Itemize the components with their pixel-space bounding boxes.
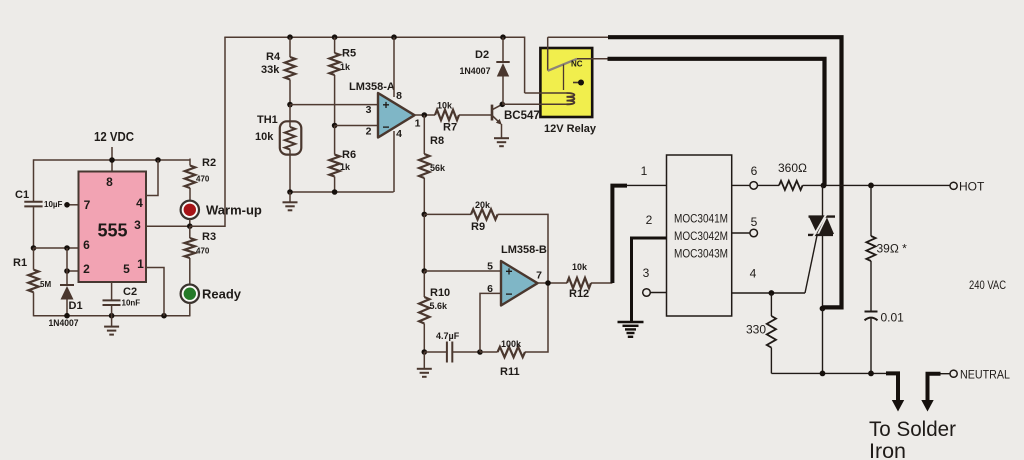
svg-text:1: 1	[137, 257, 144, 271]
resistor R2	[185, 166, 195, 189]
svg-text:R8: R8	[430, 135, 444, 147]
LED ready	[181, 285, 199, 303]
wire triac to neutral rail	[822, 309, 824, 374]
relay switch arm	[548, 59, 577, 71]
wire pin 2	[67, 270, 79, 272]
relay NO contact	[573, 80, 584, 86]
svg-text:56k: 56k	[430, 163, 446, 173]
node R5 top	[332, 34, 338, 40]
wire relay common to top	[548, 36, 609, 38]
wire to C3	[424, 351, 446, 353]
wire R3 bottom	[189, 258, 191, 285]
wire LED to node	[189, 219, 191, 226]
resistor R12	[567, 278, 591, 288]
thick arrow to solder iron left	[886, 373, 904, 411]
wire triac gate	[805, 236, 817, 294]
svg-text:4: 4	[136, 196, 143, 210]
wire pin 7 stub	[67, 204, 79, 206]
svg-text:3: 3	[366, 104, 372, 116]
svg-text:10nF: 10nF	[122, 299, 141, 308]
wire R7 to base	[459, 114, 492, 116]
MOC pin5 terminal	[750, 229, 758, 237]
svg-text:R5: R5	[342, 48, 356, 60]
svg-text:10k: 10k	[437, 101, 453, 111]
node R1 top junction	[31, 245, 37, 251]
svg-text:R10: R10	[430, 287, 450, 299]
svg-text:1k: 1k	[340, 62, 351, 72]
thick ground below MOC pin2	[618, 322, 644, 337]
wire R2 top from rail	[189, 159, 191, 166]
resistor R5	[329, 53, 339, 75]
svg-text:−: −	[382, 120, 389, 134]
wire collector to relay coil	[502, 103, 566, 105]
node triac top junction	[821, 183, 827, 189]
ground below R10	[417, 369, 432, 377]
node pin6 feedback junction	[477, 349, 483, 355]
svg-text:D1: D1	[69, 300, 83, 312]
wire ground stub comparator	[289, 192, 291, 202]
svg-text:Warm-up: Warm-up	[206, 203, 262, 218]
wire pin 4 to rail	[146, 160, 158, 196]
wire MOC pin4	[732, 292, 805, 294]
wire C1 branch upper	[33, 159, 35, 201]
triac Q2	[808, 214, 835, 238]
resistor R3	[185, 238, 195, 258]
op-amp U2A LM358-A	[378, 93, 415, 138]
resistor R4	[285, 57, 295, 80]
NEUTRAL terminal	[950, 370, 957, 377]
resistor R6	[329, 155, 339, 177]
thick wire relay common to triac MT1	[608, 37, 842, 307]
wire LED ready to rail	[189, 303, 191, 317]
node R8 top junction	[422, 112, 428, 118]
wire R6 top	[334, 126, 336, 155]
svg-text:6: 6	[487, 283, 493, 295]
wire R4 bottom	[289, 80, 291, 105]
wire left branch to pin5	[423, 214, 425, 271]
node D1 top junction	[64, 245, 70, 251]
resistor R13 360ohm	[779, 181, 803, 190]
thick wire relay NC to hot node	[608, 59, 825, 186]
wire relay NC out	[577, 58, 608, 60]
svg-text:7: 7	[536, 270, 542, 282]
resistor R8	[419, 154, 429, 178]
thick wire R12 to MOC pin1	[612, 186, 627, 283]
svg-text:5: 5	[487, 261, 493, 273]
node triac neutral junction	[820, 371, 826, 377]
svg-text:R11: R11	[500, 366, 520, 378]
IC U3 MOC box	[667, 155, 732, 316]
svg-text:Ready: Ready	[202, 287, 242, 302]
wire D2 branch	[502, 37, 504, 62]
node pin 2 junction	[64, 268, 70, 274]
wire 12V stub to pin 8	[111, 147, 113, 172]
wire triac MT1	[822, 235, 824, 309]
capacitor C1	[24, 202, 42, 207]
svg-text:+: +	[505, 265, 512, 279]
wire comparator bottom rail	[290, 191, 394, 193]
wire pin6 to 360	[758, 184, 780, 186]
svg-text:MOC3043M: MOC3043M	[674, 249, 728, 261]
wire MOC pin1	[627, 184, 667, 186]
wire neutral rail	[771, 372, 886, 374]
wire pin 5 to C2	[111, 282, 113, 300]
svg-text:555: 555	[97, 221, 127, 241]
resistor R7	[435, 110, 459, 120]
node D2 top	[500, 34, 506, 40]
svg-text:2: 2	[366, 126, 372, 138]
relay armature link	[563, 65, 565, 91]
node R6 bottom	[332, 189, 338, 195]
wire triac MT2	[822, 185, 824, 216]
wire pin 6	[34, 247, 79, 249]
wire opamp B output	[538, 282, 568, 284]
wire R1 bottom	[33, 292, 35, 316]
MOC pin3 terminal	[643, 289, 651, 297]
ground below C2	[104, 327, 119, 335]
svg-text:12 VDC: 12 VDC	[94, 130, 134, 144]
svg-text:39Ω *: 39Ω *	[877, 242, 908, 256]
wire C2 to rail	[111, 306, 113, 316]
wire R11 right	[525, 283, 548, 352]
node 330 top junction	[769, 290, 775, 296]
node triac MT1 junction	[820, 306, 826, 312]
wire MOC pin6	[732, 184, 750, 186]
diode D1	[60, 285, 74, 300]
thermistor TH1	[280, 105, 302, 192]
op-amp U2B LM358-B	[501, 261, 538, 306]
wire D1 branch lower	[66, 300, 68, 316]
svg-text:C2: C2	[123, 286, 137, 298]
svg-text:R4: R4	[266, 51, 281, 63]
thick wire MOC pin2 to ground	[632, 238, 667, 322]
wire C1 branch lower	[33, 207, 35, 248]
wire MOC pin3	[650, 292, 666, 294]
wire R10 bottom	[423, 324, 425, 353]
svg-text:5: 5	[123, 262, 130, 276]
svg-text:TH1: TH1	[257, 114, 278, 126]
svg-text:NC: NC	[571, 60, 583, 69]
wire ground stub R10	[423, 352, 425, 369]
node 39ohm top junction	[868, 183, 874, 189]
svg-text:MOC3042M: MOC3042M	[674, 231, 728, 243]
svg-text:10µF: 10µF	[44, 200, 63, 209]
wire opamp A pin3 input	[290, 104, 378, 106]
wire coil feed from rail	[525, 92, 567, 94]
wire R1 top	[33, 248, 35, 270]
node R5 R6 junction	[332, 123, 338, 129]
resistor R15 330	[767, 316, 776, 348]
wire 39ohm branch	[870, 185, 872, 236]
svg-text:1: 1	[641, 164, 648, 178]
node TH1 bottom	[287, 189, 293, 195]
svg-text:3: 3	[134, 218, 141, 232]
diode D2	[496, 62, 509, 77]
svg-text:2: 2	[83, 262, 90, 276]
wire R9 left	[424, 213, 471, 215]
svg-text:20k: 20k	[475, 200, 491, 210]
wire 555 bottom rail	[34, 315, 191, 317]
svg-text:R3: R3	[202, 231, 216, 243]
svg-text:HOT: HOT	[959, 180, 985, 194]
wire 330 to neutral rail	[770, 348, 772, 374]
svg-text:5: 5	[751, 215, 758, 229]
wire pin6 riser	[480, 293, 501, 352]
wire 360 to HOT	[803, 184, 950, 186]
ground below TH1 rail	[283, 202, 298, 210]
node pin3 LED junction	[187, 223, 193, 229]
wire R12 right	[591, 282, 612, 284]
node R4 top	[287, 34, 293, 40]
resistor R1	[28, 270, 38, 293]
wire opamp A pin4 drop	[393, 131, 395, 192]
wire R9 right	[498, 214, 548, 283]
svg-text:4: 4	[750, 267, 757, 281]
wire R6 bottom	[334, 177, 336, 193]
svg-text:4: 4	[396, 128, 402, 140]
node 12V junction	[109, 157, 115, 163]
wire R8 branch lower	[423, 178, 425, 214]
MOC pin6 terminal	[750, 182, 758, 190]
node pin1 bottom junction	[161, 313, 167, 319]
svg-text:33k: 33k	[261, 64, 280, 76]
node pin4 rail junction	[155, 157, 161, 163]
wire C3 to R11 node	[452, 351, 480, 353]
IC U1 555 timer box	[79, 172, 147, 283]
svg-text:5.6k: 5.6k	[430, 301, 449, 311]
wire R8 branch upper	[423, 115, 425, 154]
svg-text:Iron: Iron	[869, 439, 906, 460]
svg-text:R1: R1	[13, 257, 27, 269]
wire R3 top	[189, 226, 191, 238]
capacitor C4 0.01	[865, 312, 878, 321]
wire D1 branch upper	[66, 248, 68, 285]
node R4 TH1 junction	[287, 102, 293, 108]
wire R5 top	[334, 37, 336, 53]
svg-text:3: 3	[643, 266, 650, 280]
svg-text:6: 6	[83, 238, 90, 252]
wire R2 bottom	[189, 188, 191, 201]
ground below BC547 emitter	[494, 138, 509, 146]
wire opamp A pin8 riser	[393, 37, 395, 97]
svg-text:1N4007: 1N4007	[49, 318, 79, 329]
svg-text:10k: 10k	[572, 262, 588, 272]
HOT terminal	[950, 182, 957, 189]
capacitor C2	[103, 300, 121, 305]
wire 555 top rail	[34, 159, 191, 161]
wire ground stub C2	[111, 316, 113, 327]
svg-text:1: 1	[415, 118, 421, 130]
svg-text:2: 2	[646, 213, 653, 227]
resistor R10	[419, 297, 429, 324]
LED warm-up	[181, 201, 199, 219]
node cap neutral junction	[868, 371, 874, 377]
svg-text:470: 470	[196, 247, 210, 256]
resistor R14 39ohm	[866, 236, 875, 261]
relay coil	[567, 93, 575, 104]
svg-text:360Ω: 360Ω	[778, 161, 807, 175]
svg-text:LM358-B: LM358-B	[501, 244, 547, 256]
svg-text:R9: R9	[471, 221, 485, 233]
wire pin 1 to bottom rail	[146, 268, 164, 316]
node R9 left junction	[422, 212, 428, 218]
node opamp pin8 top	[391, 34, 397, 40]
relay pivot wire	[547, 37, 549, 70]
resistor R9	[471, 209, 498, 219]
svg-text:0.01: 0.01	[881, 311, 905, 325]
svg-text:R2: R2	[202, 157, 216, 169]
wire main 12V top rail	[224, 36, 524, 38]
svg-text:1N4007: 1N4007	[460, 66, 491, 77]
wire rail corner to coil feed	[524, 37, 526, 94]
resistor R11	[498, 347, 525, 357]
node output feedback junction	[545, 280, 551, 286]
svg-text:R6: R6	[342, 149, 356, 161]
svg-text:D2: D2	[475, 49, 489, 61]
wire R4 top	[289, 37, 291, 57]
svg-text:330: 330	[746, 323, 766, 337]
node D1 bottom junction	[64, 313, 70, 319]
svg-text:8: 8	[106, 175, 113, 189]
svg-text:100k: 100k	[501, 339, 522, 349]
svg-text:MOC3041M: MOC3041M	[674, 214, 728, 226]
node collector junction	[500, 102, 506, 108]
wire riser pin3 to top rail	[190, 37, 225, 226]
transistor Q1 BC547	[492, 104, 502, 138]
node pin 7 dot	[64, 202, 70, 208]
node pin5 junction	[422, 268, 428, 274]
wire left branch to R10	[423, 271, 425, 297]
wire MOC pin5	[732, 232, 750, 234]
svg-text:−: −	[505, 287, 512, 301]
svg-text:10k: 10k	[255, 131, 274, 143]
svg-text:+: +	[382, 98, 389, 112]
svg-text:470: 470	[196, 175, 210, 184]
svg-text:5M: 5M	[40, 280, 51, 289]
node R10 bottom junction	[422, 349, 428, 355]
wire opamp A output	[415, 114, 436, 116]
svg-text:NEUTRAL: NEUTRAL	[960, 368, 1010, 382]
svg-text:8: 8	[396, 90, 402, 102]
capacitor C3 4.7uF	[447, 342, 452, 363]
wire 330 branch	[770, 293, 772, 316]
svg-text:6: 6	[751, 164, 758, 178]
svg-text:7: 7	[84, 198, 91, 212]
relay K1 12V box	[540, 48, 592, 117]
svg-text:R12: R12	[569, 288, 589, 300]
wire 39ohm to cap	[870, 261, 872, 312]
svg-text:BC547: BC547	[504, 110, 540, 122]
wire pin 3 to LED node	[146, 225, 225, 227]
wire neutral stub	[940, 373, 950, 375]
svg-text:12V Relay: 12V Relay	[544, 123, 597, 135]
wire D2 to collector	[502, 77, 504, 105]
wire opamp B pin5 input	[424, 270, 501, 272]
svg-text:To Solder: To Solder	[869, 417, 956, 441]
wire opamp A pin2 input	[335, 125, 378, 127]
wire cap to neutral rail	[870, 319, 872, 374]
svg-text:1k: 1k	[340, 162, 351, 172]
svg-text:4.7µF: 4.7µF	[436, 331, 460, 341]
svg-text:240 VAC: 240 VAC	[969, 278, 1006, 292]
wire R11 left	[480, 351, 498, 353]
svg-text:LM358-A: LM358-A	[349, 81, 395, 93]
svg-text:R7: R7	[443, 122, 457, 134]
svg-text:C1: C1	[15, 189, 29, 201]
wire R5 bottom	[334, 75, 336, 126]
thick arrow to solder iron right	[921, 374, 940, 412]
node C2 ground junction	[109, 313, 115, 319]
